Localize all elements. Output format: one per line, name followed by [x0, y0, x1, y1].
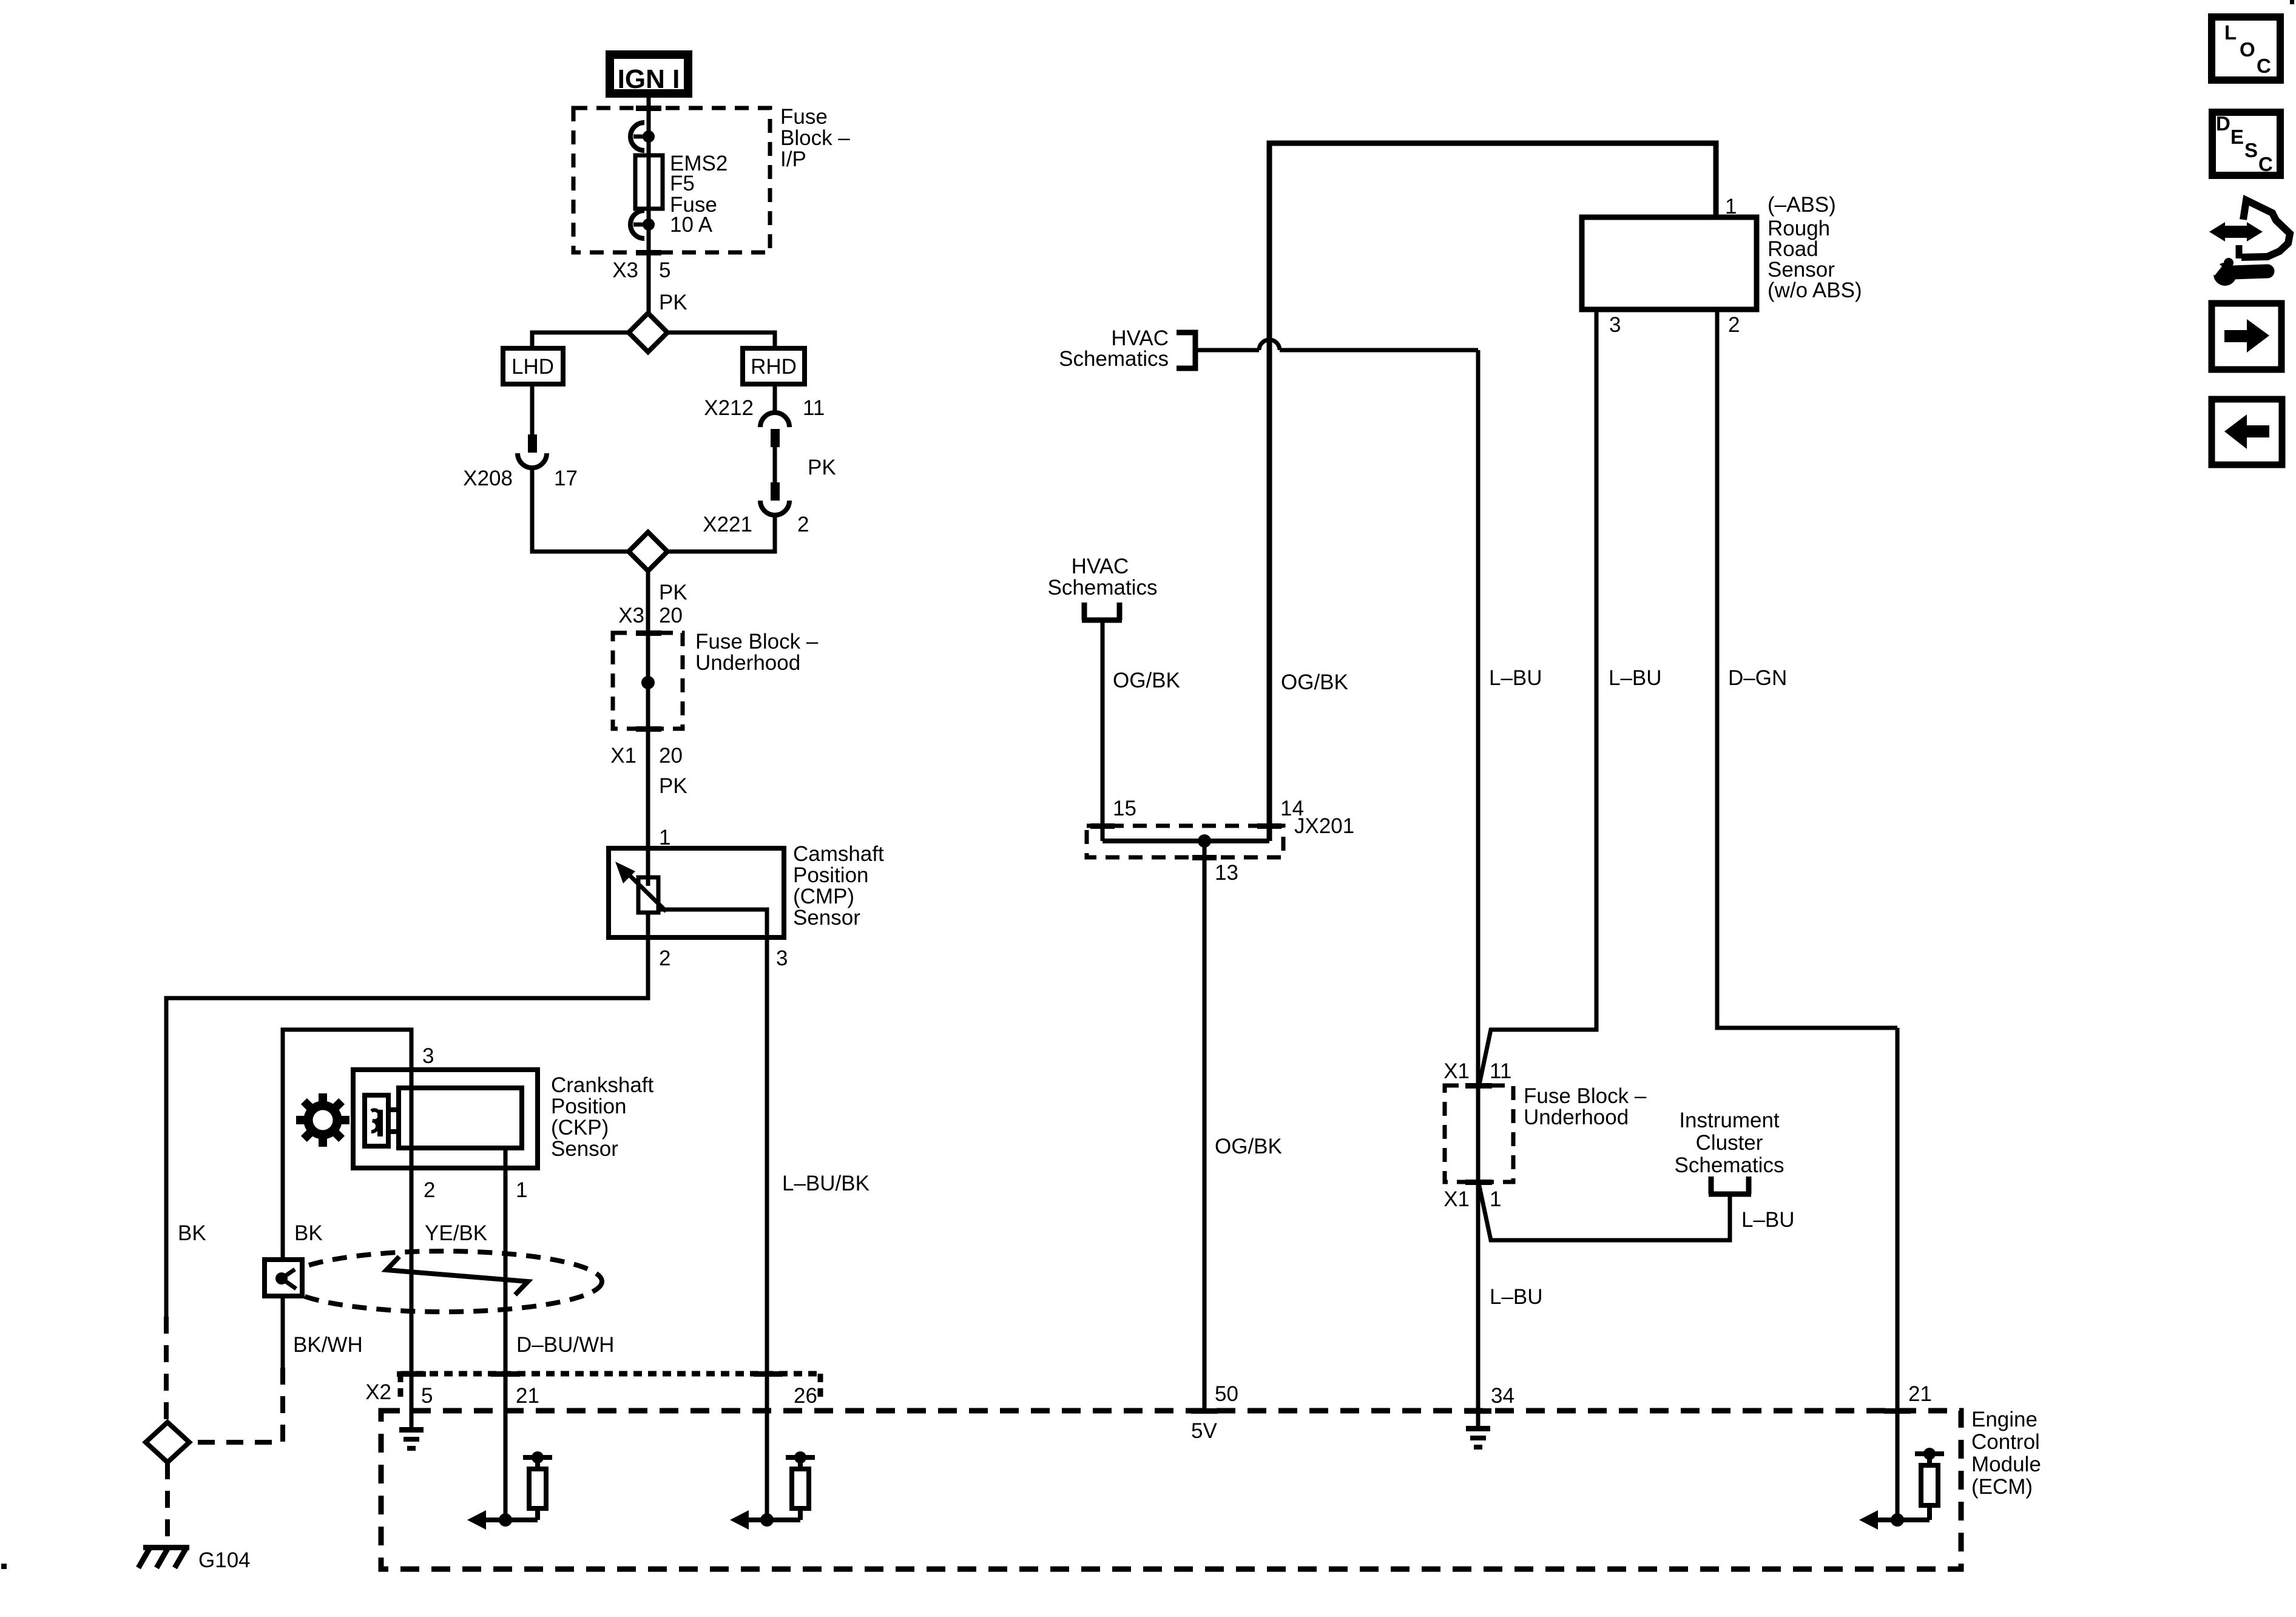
svg-text:L–BU: L–BU — [1489, 666, 1542, 690]
wire LHD down — [530, 384, 535, 436]
svg-text:21: 21 — [516, 1384, 539, 1408]
junction dot in fuse block — [641, 676, 655, 689]
svg-text:Block –: Block – — [780, 126, 850, 150]
svg-text:(–ABS): (–ABS) — [1768, 193, 1836, 217]
branch wire to instrument cluster — [1479, 1183, 1730, 1240]
svg-text:L–BU: L–BU — [1490, 1285, 1543, 1309]
CKP reluctor gear — [296, 1093, 349, 1147]
wire CKP pin1 D-BU/WH — [505, 1148, 614, 1520]
pin tick X2-21 — [491, 1371, 520, 1377]
twisted pair symbol — [387, 1257, 528, 1295]
svg-text:11: 11 — [1490, 1059, 1511, 1083]
dashed wire BK/WH to diamond — [189, 1333, 363, 1442]
svg-text:(CMP): (CMP) — [793, 885, 854, 908]
svg-text:PK: PK — [659, 774, 687, 798]
svg-text:X212: X212 — [704, 396, 754, 420]
camshaft position sensor box U-CMP — [609, 848, 784, 937]
shield drain splice square — [265, 1260, 302, 1296]
svg-text:10 A: 10 A — [670, 213, 713, 237]
svg-text:F5: F5 — [670, 172, 695, 195]
svg-text:2: 2 — [1728, 313, 1740, 337]
wire RRS pin3 L-BU to X1 11 — [1479, 309, 1662, 1087]
JX201 junction dot — [1198, 834, 1211, 848]
nav icon arrow left — [2212, 399, 2282, 465]
wire HVAC to pin34 with hop — [1198, 340, 1478, 350]
pin tick ECM-34 — [1465, 1408, 1491, 1414]
svg-text:2: 2 — [424, 1178, 435, 1202]
wire X221 to diamond2 — [667, 515, 775, 552]
fuse block I/P dashed box — [573, 106, 770, 255]
svg-text:20: 20 — [659, 744, 683, 768]
label Fuse Block - I/P — [780, 105, 850, 171]
wire diamond2 down PK — [618, 571, 687, 633]
label Fuse Block - Underhood — [695, 630, 819, 675]
svg-text:L–BU: L–BU — [1741, 1208, 1795, 1232]
wire diamond to RHD — [667, 333, 775, 348]
nav icon DESC — [2212, 112, 2280, 175]
dashed wire BK to ground diamond — [164, 1317, 169, 1423]
CKP pickup element — [365, 1095, 399, 1146]
svg-text:Crankshaft: Crankshaft — [551, 1073, 654, 1097]
svg-text:L–BU/BK: L–BU/BK — [782, 1172, 869, 1195]
svg-text:(ECM): (ECM) — [1971, 1475, 2033, 1499]
label Crankshaft Position (CKP) Sensor — [551, 1073, 654, 1161]
splice diamond bottom — [629, 532, 667, 571]
label RRS pins 3 2 — [1609, 313, 1740, 337]
wire CKP pin2 YE/BK — [411, 1030, 487, 1428]
svg-text:3: 3 — [1609, 313, 1621, 337]
svg-text:Cluster: Cluster — [1696, 1131, 1763, 1155]
wire to CMP sensor PK pin 1 — [648, 729, 687, 849]
fuse block underhood dashed box — [613, 630, 683, 732]
svg-text:I/P: I/P — [780, 147, 806, 171]
svg-text:5V: 5V — [1191, 1419, 1217, 1443]
HVAC schematics reference bracket 1 — [1059, 326, 1195, 371]
svg-text:Fuse Block –: Fuse Block – — [1524, 1084, 1647, 1108]
nav icon arrow right — [2212, 303, 2281, 370]
svg-text:2: 2 — [659, 947, 670, 970]
splice diamond top — [629, 313, 667, 352]
svg-text:Control: Control — [1971, 1430, 2040, 1454]
label Rough Road Sensor (w/o ABS) — [1768, 217, 1862, 302]
option box RHD — [743, 348, 805, 384]
svg-text:2: 2 — [797, 513, 809, 536]
ECM dashed box — [381, 1411, 1961, 1569]
svg-text:Schematics: Schematics — [1059, 347, 1169, 371]
wire through fuse — [647, 137, 651, 224]
svg-text:RHD: RHD — [751, 355, 797, 379]
label pin 1 (-ABS) — [1725, 193, 1836, 218]
ground inside ECM pin 34 — [1466, 1411, 1490, 1450]
wire CMP pin3 L-BU/BK — [767, 937, 869, 1520]
CKP sensor inner box — [399, 1088, 522, 1148]
instrument cluster reference bracket — [1709, 1176, 1751, 1194]
wire diamond to LHD — [532, 333, 629, 348]
fuse block underhood dashed box right — [1445, 1083, 1513, 1185]
svg-text:14: 14 — [1280, 797, 1304, 820]
pin tick X2-26 — [754, 1371, 783, 1377]
svg-text:X1: X1 — [1443, 1059, 1470, 1083]
svg-text:Fuse Block –: Fuse Block – — [695, 630, 819, 653]
svg-text:IGN I: IGN I — [618, 64, 680, 94]
label X1 20 — [610, 744, 683, 768]
svg-text:YE/BK: YE/BK — [425, 1221, 487, 1245]
crankshaft position sensor outer box — [353, 1070, 538, 1168]
svg-text:L–BU: L–BU — [1609, 666, 1662, 690]
svg-text:Sensor: Sensor — [793, 906, 860, 930]
label X1 11 — [1443, 1059, 1511, 1083]
junction block JX201 dashed box — [1087, 814, 1354, 857]
wire CKP pin3 top — [283, 1030, 434, 1368]
svg-text:O: O — [2240, 38, 2255, 61]
svg-text:X1: X1 — [610, 744, 636, 768]
connector X2 dotted line ECM — [365, 1374, 820, 1404]
svg-text:PK: PK — [659, 581, 687, 604]
svg-text:26: 26 — [794, 1384, 817, 1408]
svg-text:20: 20 — [659, 604, 683, 627]
svg-text:Position: Position — [793, 863, 869, 887]
nav icon body repair arrow — [2209, 200, 2290, 258]
svg-text:Module: Module — [1971, 1453, 2041, 1476]
page mark bottom left — [1, 1564, 7, 1569]
svg-text:PK: PK — [659, 291, 687, 314]
pin tick X2-5 — [397, 1371, 426, 1377]
svg-text:13: 13 — [1215, 861, 1238, 885]
fuse F5 EMS2 10A — [635, 155, 663, 209]
label Fuse Block - Underhood right — [1524, 1084, 1647, 1129]
svg-text:34: 34 — [1491, 1384, 1514, 1408]
svg-text:LHD: LHD — [512, 355, 554, 379]
ground inside ECM pin 5 — [399, 1427, 424, 1451]
svg-text:G104: G104 — [198, 1548, 251, 1572]
svg-text:17: 17 — [554, 467, 578, 490]
svg-text:1: 1 — [1490, 1187, 1501, 1211]
pin tick ECM-21 — [1884, 1408, 1911, 1414]
svg-text:X3: X3 — [612, 258, 638, 282]
svg-text:Underhood: Underhood — [695, 651, 800, 675]
svg-text:D–BU/WH: D–BU/WH — [516, 1333, 614, 1357]
wire CMP pin2 BK to left — [166, 937, 648, 1317]
power feed box IGN I — [610, 55, 688, 94]
rough road sensor box — [1582, 217, 1757, 309]
label Engine Control Module (ECM) — [1971, 1408, 2041, 1499]
svg-text:C: C — [2258, 153, 2273, 175]
svg-text:HVAC: HVAC — [1072, 555, 1129, 578]
connector X208 pin 17 — [463, 434, 578, 490]
wire X208 to diamond2 — [532, 468, 629, 552]
connector X221 pin 2 — [703, 482, 809, 536]
svg-text:D–GN: D–GN — [1728, 666, 1787, 690]
wire fuse block to splice diamond, PK — [649, 224, 687, 314]
pin tick ECM-50 — [1191, 1408, 1218, 1414]
svg-text:Schematics: Schematics — [1048, 576, 1158, 599]
wire RHD down — [773, 384, 777, 414]
JX201 internal bus wire — [1090, 823, 1115, 829]
svg-text:Camshaft: Camshaft — [793, 842, 884, 866]
wire IGN I to fuse — [647, 98, 651, 137]
svg-text:Fuse: Fuse — [780, 105, 828, 129]
svg-text:15: 15 — [1113, 797, 1136, 820]
svg-text:C: C — [2257, 55, 2271, 77]
svg-text:5: 5 — [659, 258, 670, 282]
svg-text:3: 3 — [422, 1044, 434, 1068]
CMP internal wire pin1 to resistor — [646, 848, 650, 886]
CMP variable resistor element — [615, 862, 666, 913]
ECM internal resistor pin 21 left — [467, 1451, 552, 1530]
svg-text:X2: X2 — [365, 1380, 391, 1404]
svg-text:S: S — [2244, 139, 2258, 161]
splice diamond ground — [146, 1422, 189, 1462]
wire HVAC2 down OG/BK — [1102, 620, 1180, 841]
svg-text:Engine: Engine — [1971, 1408, 2038, 1431]
svg-text:BK: BK — [178, 1221, 206, 1245]
svg-text:PK: PK — [808, 456, 836, 479]
svg-text:(CKP): (CKP) — [551, 1116, 609, 1139]
CMP internal wire resistor to pin3 — [658, 910, 767, 937]
wire down to ECM 21 — [1896, 1028, 1900, 1520]
svg-text:E: E — [2230, 126, 2244, 148]
wire L-BU main vertical to ECM 34 — [1478, 350, 1543, 1411]
svg-text:21: 21 — [1908, 1382, 1932, 1406]
top wire rough road sensor feed — [1269, 143, 1716, 841]
fuse clip contact bottom — [630, 211, 655, 238]
wire RRS pin2 D-GN — [1717, 309, 1897, 1028]
svg-text:Underhood: Underhood — [1524, 1106, 1629, 1129]
svg-text:OG/BK: OG/BK — [1113, 669, 1180, 692]
svg-text:3: 3 — [776, 947, 788, 970]
label Camshaft Position (CMP) Sensor — [793, 842, 884, 930]
label EMS2 F5 Fuse 10 A — [670, 152, 728, 237]
label CMP pins 2 3 — [659, 947, 788, 970]
ECM internal resistor pin 26 — [730, 1451, 815, 1530]
svg-text:Schematics: Schematics — [1675, 1153, 1784, 1177]
HVAC schematics reference bracket 2 — [1048, 555, 1158, 620]
page mark top right — [2290, 0, 2294, 4]
ground G104 — [138, 1545, 251, 1572]
dashed wire diamond to G104 — [165, 1462, 170, 1547]
label pins 5 21 26 — [421, 1384, 817, 1408]
svg-text:1: 1 — [1725, 195, 1737, 218]
svg-text:OG/BK: OG/BK — [1215, 1135, 1282, 1158]
svg-text:L: L — [2224, 21, 2237, 44]
label X3 5 — [612, 258, 670, 282]
option box LHD — [503, 348, 563, 384]
svg-text:50: 50 — [1215, 1382, 1238, 1406]
CMP internal wire resistor to pin2 — [646, 913, 650, 937]
wire OG/BK JX201 to ECM 50 — [1204, 841, 1282, 1411]
svg-text:Position: Position — [551, 1095, 627, 1118]
svg-text:Sensor: Sensor — [551, 1137, 618, 1161]
wire PK between connectors — [775, 447, 836, 482]
shield ellipse dashed — [284, 1251, 602, 1312]
svg-text:D: D — [2216, 112, 2230, 135]
svg-text:X1: X1 — [1443, 1187, 1470, 1211]
svg-text:BK/WH: BK/WH — [293, 1333, 363, 1357]
label X1 1 — [1443, 1187, 1501, 1211]
label Instrument Cluster Schematics — [1675, 1109, 1784, 1177]
wire through fuse block underhood — [646, 633, 650, 729]
svg-text:5: 5 — [421, 1384, 433, 1408]
svg-text:OG/BK: OG/BK — [1281, 670, 1348, 694]
nav icon LOC — [2212, 17, 2280, 80]
label 50 5V — [1191, 1382, 1238, 1443]
svg-text:11: 11 — [803, 396, 825, 420]
JX201 pin labels 15 14 13 — [1113, 797, 1304, 885]
svg-text:X208: X208 — [463, 467, 513, 490]
fuse clip contact top — [630, 123, 655, 150]
svg-text:X3: X3 — [618, 604, 644, 627]
svg-text:Instrument: Instrument — [1679, 1109, 1780, 1132]
svg-text:1: 1 — [516, 1178, 527, 1202]
svg-text:X221: X221 — [703, 513, 752, 536]
connector X212 pin 11 — [704, 396, 825, 447]
nav icon wrench — [2203, 257, 2267, 286]
ECM internal resistor pin 21 right — [1859, 1448, 1944, 1530]
svg-text:BK: BK — [294, 1221, 323, 1245]
svg-text:(w/o ABS): (w/o ABS) — [1768, 279, 1862, 302]
